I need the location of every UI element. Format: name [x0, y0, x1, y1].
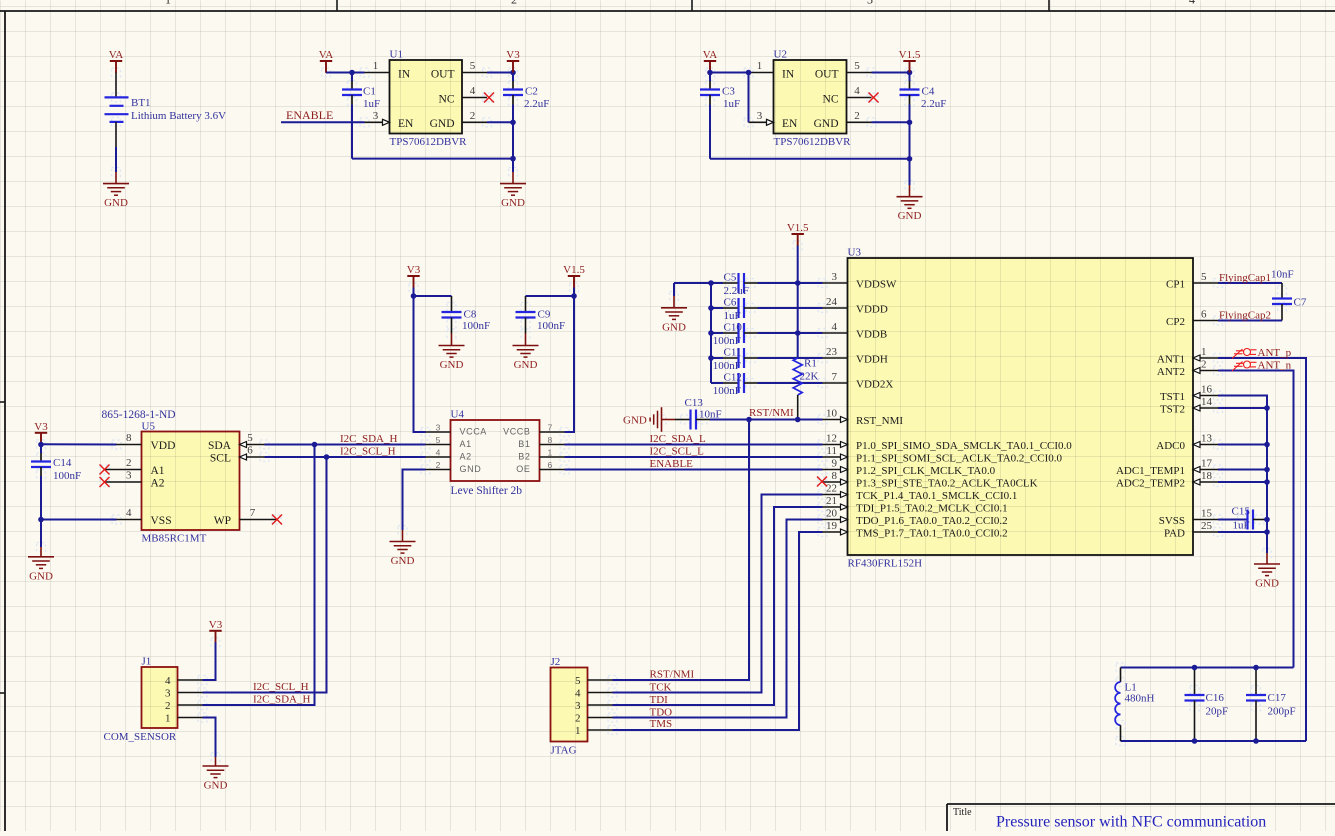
op U1 body	[390, 60, 463, 134]
svg-text:100nF: 100nF	[713, 335, 741, 347]
svg-text:EN: EN	[398, 118, 414, 130]
U3 pin 9 P1.2_SPI_CLK_MCLK_TA0.0	[823, 469, 848, 471]
svg-text:2.2uF: 2.2uF	[724, 285, 749, 297]
U3 pin 14 TST2	[1193, 407, 1218, 409]
J1 pin 2	[178, 704, 203, 706]
svg-text:GND: GND	[460, 464, 482, 474]
svg-text:20pF: 20pF	[1206, 706, 1229, 718]
svg-text:GND: GND	[204, 780, 228, 792]
no-ERC X on U5 pin 3	[100, 477, 110, 487]
ic U3 body	[848, 258, 1194, 555]
svg-text:TDI: TDI	[650, 694, 669, 706]
svg-text:U2: U2	[774, 49, 787, 61]
wire V3 to J1 pin4	[203, 642, 216, 680]
wire J1 pin1 to GND	[203, 718, 216, 758]
svg-text:I2C_SDA_H: I2C_SDA_H	[340, 433, 398, 445]
capacitor C10	[711, 332, 723, 334]
svg-text:22K: 22K	[800, 371, 819, 383]
svg-text:P1.3_SPI_STE_TA0.2_ACLK_TA0CLK: P1.3_SPI_STE_TA0.2_ACLK_TA0CLK	[856, 478, 1038, 490]
U1 pin 1	[365, 72, 390, 74]
svg-text:19: 19	[826, 520, 838, 532]
wire rail to GND (U2)	[909, 159, 911, 185]
svg-text:16: 16	[1201, 384, 1213, 396]
wire SCL vertical to J1	[203, 457, 327, 693]
svg-text:FlyingCap2: FlyingCap2	[1219, 310, 1271, 322]
wire ADC1_TEMP1 to bus	[1218, 469, 1267, 471]
U3 pin 12 P1.0_SPI_SIMO_SDA_SMCLK_TA0.1_CCI0.0	[823, 444, 848, 446]
wire bus to GND (right)	[1266, 553, 1268, 564]
svg-text:A2: A2	[151, 478, 165, 490]
wire U1 ground rail	[352, 158, 513, 160]
svg-text:OE: OE	[516, 464, 530, 474]
wire TDI from J2 to U3 pin21	[613, 507, 823, 705]
svg-text:2: 2	[1201, 359, 1207, 371]
svg-text:ADC2_TEMP2: ADC2_TEMP2	[1116, 478, 1185, 490]
svg-text:2: 2	[470, 110, 476, 122]
svg-text:2: 2	[126, 457, 132, 469]
junction C17 top	[1253, 665, 1259, 671]
junction C16 top	[1192, 665, 1198, 671]
U3 pin 17 ADC1_TEMP1	[1193, 469, 1218, 471]
junction SCL drop	[324, 454, 330, 460]
svg-text:5: 5	[247, 432, 253, 444]
wire TDO from J2 to U3 pin20	[613, 520, 823, 718]
wire ANT2 to tank	[1218, 371, 1294, 668]
wire V1.5 column (U3)	[787, 222, 809, 246]
svg-text:U5: U5	[142, 421, 156, 433]
wire gnd bus corner down	[673, 283, 675, 296]
connector J2 body	[551, 668, 588, 742]
U5 pin 3 A2	[105, 481, 142, 483]
no-ERC X on U1 pin 4	[484, 93, 494, 103]
svg-text:J2: J2	[551, 656, 561, 668]
capacitor C4	[909, 73, 911, 82]
U3 pin 8 P1.3_SPI_STE_TA0.2_ACLK_TA0CLK	[823, 481, 848, 483]
capacitor C13	[689, 410, 691, 430]
wire C13 to U3 pin10	[696, 419, 710, 421]
U1 body fill	[390, 60, 463, 134]
svg-text:TST2: TST2	[1160, 404, 1185, 416]
svg-text:TDO_P1.6_TA0.0_TA0.2_CCI0.2: TDO_P1.6_TA0.0_TA0.2_CCI0.2	[856, 515, 1008, 527]
svg-text:1uF: 1uF	[1233, 520, 1250, 532]
svg-text:B1: B1	[518, 439, 530, 449]
svg-text:MB85RC1MT: MB85RC1MT	[142, 533, 207, 545]
wire TST2 to bus	[1218, 407, 1267, 409]
capacitor C7	[1272, 297, 1292, 299]
inductor L1	[1115, 668, 1120, 742]
junction ADC0	[1264, 442, 1270, 448]
svg-text:21: 21	[826, 495, 837, 507]
wire CP1 to C7	[1218, 282, 1282, 284]
zone tick top 1-2	[336, 0, 338, 11]
svg-text:22: 22	[826, 483, 837, 495]
battery BT1	[105, 97, 129, 122]
svg-text:SVSS: SVSS	[1159, 515, 1185, 527]
wire I2C_SCL_L	[565, 456, 823, 458]
svg-text:18: 18	[1201, 470, 1213, 482]
svg-text:P1.0_SPI_SIMO_SDA_SMCLK_TA0.1_: P1.0_SPI_SIMO_SDA_SMCLK_TA0.1_CCI0.0	[856, 440, 1072, 452]
svg-text:P1.1_SPI_SOMI_SCL_ACLK_TA0.2_C: P1.1_SPI_SOMI_SCL_ACLK_TA0.2_CCI0.0	[856, 453, 1063, 465]
U1 pin 2	[462, 121, 487, 123]
capacitor C14	[40, 445, 42, 454]
svg-text:COM_SENSOR: COM_SENSOR	[104, 731, 177, 743]
svg-text:C7: C7	[1294, 297, 1307, 309]
svg-text:4: 4	[1189, 0, 1195, 7]
capacitor C8	[451, 296, 453, 312]
svg-text:5: 5	[1201, 271, 1207, 283]
sheet border top line	[0, 10, 1335, 12]
svg-text:SDA: SDA	[208, 440, 232, 452]
svg-text:C14: C14	[53, 457, 72, 469]
svg-text:3: 3	[757, 110, 763, 122]
capacitor C5	[711, 282, 723, 284]
ground sideways (C13)	[650, 407, 661, 432]
wire ENABLE (U4 OE to U3)	[565, 469, 823, 471]
ground GND (C9)	[513, 346, 539, 372]
wire V3 to U5 VDD	[41, 443, 117, 445]
svg-text:ANT_p: ANT_p	[1258, 347, 1292, 359]
U3 pin 6 CP2	[1193, 320, 1218, 322]
wire U4 GND pin	[403, 470, 426, 531]
junction U1 rail	[510, 156, 516, 162]
capacitor C2	[512, 73, 514, 82]
svg-text:VDDB: VDDB	[856, 329, 887, 341]
svg-text:PAD: PAD	[1164, 528, 1185, 540]
wire VSS row	[41, 519, 117, 521]
svg-text:C17: C17	[1268, 692, 1287, 704]
svg-text:P1.2_SPI_CLK_MCLK_TA0.0: P1.2_SPI_CLK_MCLK_TA0.0	[856, 465, 996, 477]
U4 pin 8 B1	[540, 444, 565, 446]
wire U1 pin2 to C2	[487, 121, 513, 123]
U3 pin 25 PAD	[1193, 531, 1218, 533]
U5 body fill	[142, 432, 240, 531]
svg-text:100nF: 100nF	[53, 470, 81, 482]
wire tank top rail	[1121, 667, 1294, 669]
svg-text:VDD: VDD	[151, 440, 176, 452]
wire SCL to U4 A2	[265, 456, 426, 458]
svg-text:13: 13	[1201, 433, 1213, 445]
U5 pin 2 A1	[105, 469, 142, 471]
U3 pin 13 ADC0	[1193, 444, 1218, 446]
wire U2 pin2 to C4	[872, 121, 910, 123]
svg-text:7: 7	[832, 371, 838, 383]
U4 pin 3 VCCA	[426, 431, 451, 433]
svg-text:RST_NMI: RST_NMI	[856, 415, 903, 427]
svg-text:Leve Shifter 2b: Leve Shifter 2b	[451, 485, 523, 497]
U3 pin 4 VDDB	[823, 332, 848, 334]
ground GND (J1)	[203, 766, 229, 792]
ground GND (C8)	[439, 346, 465, 372]
svg-text:100nF: 100nF	[713, 385, 741, 397]
capacitor C12	[711, 382, 723, 384]
svg-text:OUT: OUT	[815, 69, 839, 81]
J1 pin 3	[178, 692, 203, 694]
junction V1.5 C9 tap	[571, 293, 577, 299]
U1 pin 4	[462, 97, 487, 99]
diff pair mark ANT_p	[1232, 349, 1257, 359]
power port V3 (J1)	[209, 619, 223, 643]
wire tank bottom rail	[1121, 740, 1307, 742]
J1 pin 1	[178, 717, 203, 719]
svg-text:C9: C9	[538, 309, 551, 321]
U3 pin 10 RST_NMI	[823, 419, 848, 421]
svg-text:A2: A2	[460, 452, 472, 462]
junction VSS	[38, 517, 44, 523]
wire SDA vertical to J1	[203, 445, 315, 706]
power port V3 (U5)	[34, 421, 48, 445]
svg-text:100nF: 100nF	[537, 320, 565, 332]
svg-text:480nH: 480nH	[1125, 693, 1155, 705]
svg-text:BT1: BT1	[131, 97, 151, 109]
svg-text:7: 7	[250, 507, 256, 519]
svg-text:VDDD: VDDD	[856, 304, 888, 316]
wire C14 to GND	[40, 520, 42, 548]
ic U4 body	[451, 420, 540, 481]
svg-text:5: 5	[470, 60, 476, 72]
U2 pin 1	[749, 72, 774, 74]
junction V1.5 row333	[795, 330, 801, 336]
svg-text:4: 4	[832, 321, 838, 333]
junction PAD	[1264, 529, 1270, 535]
connector J1 body	[142, 667, 178, 728]
capacitor C17	[1255, 668, 1257, 696]
svg-text:TMS: TMS	[650, 718, 673, 730]
junction gnd bus row333	[708, 330, 714, 336]
svg-text:C2: C2	[525, 86, 538, 98]
capacitor C3	[709, 73, 711, 82]
wire battery to GND	[115, 122, 117, 147]
svg-text:C15: C15	[1232, 506, 1251, 518]
diff pair mark ANT_n	[1232, 361, 1257, 371]
capacitor C11	[711, 357, 723, 359]
wire VA to U2 pin1	[710, 72, 749, 74]
svg-text:U1: U1	[390, 49, 403, 61]
svg-text:1uF: 1uF	[724, 310, 741, 322]
junction ADC2	[1264, 479, 1270, 485]
ground GND (U5)	[28, 557, 54, 583]
power port V3 (U4)	[407, 264, 421, 288]
svg-text:I2C_SCL_H: I2C_SCL_H	[253, 681, 309, 693]
svg-text:C1: C1	[363, 86, 376, 98]
svg-text:GND: GND	[514, 359, 538, 371]
U1 pin names	[398, 69, 455, 131]
svg-text:IN: IN	[398, 69, 411, 81]
svg-text:2.2uF: 2.2uF	[921, 98, 946, 110]
junction EN tap (U2)	[746, 70, 752, 76]
junction U1 gnd node	[510, 120, 516, 126]
svg-text:4: 4	[575, 688, 581, 700]
J2 pin 3	[588, 704, 613, 706]
svg-text:IN: IN	[782, 69, 795, 81]
svg-text:GND: GND	[501, 197, 525, 209]
wire RST/NMI vertical from J2	[613, 420, 750, 681]
svg-text:5: 5	[436, 435, 441, 445]
junction gnd bus row283	[708, 280, 714, 286]
J2 body fill	[551, 668, 588, 742]
svg-text:NC: NC	[823, 94, 839, 106]
svg-text:100nF: 100nF	[462, 320, 490, 332]
svg-text:TPS70612DBVR: TPS70612DBVR	[390, 136, 468, 148]
svg-text:RST/NMI: RST/NMI	[650, 669, 695, 681]
U2 pin 5	[847, 72, 872, 74]
U3 pin 11 P1.1_SPI_SOMI_SCL_ACLK_TA0.2_CCI0.0	[823, 456, 848, 458]
svg-text:865-1268-1-ND: 865-1268-1-ND	[102, 409, 176, 421]
wire U2 ground rail	[710, 158, 910, 160]
svg-text:I2C_SDA_L: I2C_SDA_L	[650, 433, 707, 445]
U3 pin 21 TDI_P1.5_TA0.2_MCLK_CCI0.1	[823, 506, 848, 508]
junction U2 gnd node	[907, 120, 913, 126]
no-ERC X on U5 pin 2	[100, 465, 110, 475]
svg-text:V3: V3	[209, 619, 223, 631]
svg-text:I2C_SCL_L: I2C_SCL_L	[650, 446, 705, 458]
svg-text:3: 3	[126, 470, 132, 482]
svg-text:A1: A1	[151, 465, 165, 477]
svg-text:10nF: 10nF	[1271, 269, 1294, 281]
wire TCK from J2 to U3 pin22	[613, 495, 823, 693]
J1 pin 4	[178, 679, 203, 681]
svg-text:ADC1_TEMP1: ADC1_TEMP1	[1116, 465, 1185, 477]
U3 pin 23 VDDH	[823, 357, 848, 359]
svg-text:20: 20	[826, 508, 838, 520]
svg-text:J1: J1	[142, 656, 152, 668]
wire I2C_SDA_L	[565, 444, 823, 446]
svg-text:8: 8	[832, 470, 838, 482]
svg-text:Lithium Battery 3.6V: Lithium Battery 3.6V	[131, 110, 226, 122]
svg-text:9: 9	[832, 458, 838, 470]
junction V3 C14 tap	[38, 442, 44, 448]
resistor R1	[793, 358, 802, 395]
svg-text:C3: C3	[722, 86, 735, 98]
svg-text:C12: C12	[724, 372, 742, 384]
wire gnd to C13	[662, 419, 676, 421]
wire PAD to bus	[1218, 531, 1267, 533]
wire R1 to RST row	[797, 395, 799, 420]
junction SVSS	[1264, 517, 1270, 523]
svg-text:V3: V3	[34, 421, 48, 433]
svg-text:C11: C11	[724, 347, 742, 359]
svg-text:ANT_n: ANT_n	[1258, 360, 1292, 372]
J1 body fill	[142, 667, 178, 728]
wire ENABLE to U1 pin3	[281, 121, 365, 123]
ground GND (U1)	[500, 184, 526, 210]
wire V1.5 to C9	[526, 295, 575, 297]
svg-text:RST/NMI: RST/NMI	[749, 407, 794, 419]
U3 pin 19 TMS_P1.7_TA0.1_TA0.0_CCI0.2	[823, 531, 848, 533]
svg-text:4: 4	[854, 85, 860, 97]
U3 pin 1 ANT1	[1193, 357, 1218, 359]
junction C16 bottom	[1192, 738, 1198, 744]
svg-text:VDD2X: VDD2X	[856, 379, 893, 391]
J2 pin 2	[588, 717, 613, 719]
ic U5 body	[142, 432, 240, 531]
ic U2 body	[774, 60, 847, 134]
wire ADC0 to bus	[1218, 444, 1267, 446]
svg-text:CP2: CP2	[1166, 316, 1185, 328]
svg-text:1: 1	[1201, 346, 1207, 358]
junction V1.5 node (U2)	[907, 70, 913, 76]
wire U2 pin5 to V1.5	[872, 72, 910, 74]
svg-text:VCCA: VCCA	[460, 427, 487, 437]
U5 pin 6 SCL	[240, 456, 265, 458]
U5 pin 8 VDD	[117, 444, 142, 446]
svg-text:6: 6	[548, 460, 553, 470]
svg-text:14: 14	[1201, 396, 1213, 408]
svg-text:FlyingCap1: FlyingCap1	[1219, 272, 1271, 284]
U3 pin 22 TCK_P1.4_TA0.1_SMCLK_CCI0.1	[823, 494, 848, 496]
no-ERC X on U2 pin 4	[869, 93, 879, 103]
junction V3 node	[510, 70, 516, 76]
svg-text:3: 3	[867, 0, 873, 7]
junction C1 tap	[349, 70, 355, 76]
svg-text:TPS70612DBVR: TPS70612DBVR	[774, 136, 852, 148]
svg-text:V3: V3	[506, 49, 520, 61]
zone tick top 2-3	[691, 0, 693, 11]
svg-text:11: 11	[826, 445, 837, 457]
svg-text:2: 2	[165, 700, 171, 712]
svg-text:GND: GND	[391, 555, 415, 567]
svg-text:10: 10	[826, 408, 838, 420]
svg-text:VCCB: VCCB	[503, 427, 530, 437]
svg-text:1uF: 1uF	[363, 98, 380, 110]
U4 pin 5 A1	[426, 444, 451, 446]
wire ANT1 to tank	[1218, 358, 1306, 741]
svg-text:GND: GND	[440, 359, 464, 371]
svg-text:VDDSW: VDDSW	[856, 279, 897, 291]
svg-text:VA: VA	[109, 49, 124, 61]
power port V3 (U1)	[506, 49, 520, 73]
U1 pin 5	[462, 72, 487, 74]
U3 body fill	[848, 258, 1194, 555]
junction TST2	[1264, 405, 1270, 411]
svg-text:ENABLE: ENABLE	[286, 108, 333, 122]
svg-text:TMS_P1.7_TA0.1_TA0.0_CCI0.2: TMS_P1.7_TA0.1_TA0.0_CCI0.2	[856, 528, 1008, 540]
svg-text:1: 1	[165, 713, 171, 725]
svg-text:6: 6	[247, 445, 253, 457]
U2 pin names	[782, 69, 839, 131]
U2 pin 2	[847, 121, 872, 123]
wire TST1 to bus	[1218, 396, 1267, 554]
U5 pin 5 SDA	[240, 444, 265, 446]
svg-text:1uF: 1uF	[723, 98, 740, 110]
sheet border left line	[4, 11, 6, 831]
power port VA (U2)	[703, 49, 718, 73]
svg-text:GND: GND	[623, 415, 647, 427]
svg-text:3: 3	[373, 110, 379, 122]
svg-text:TDO: TDO	[650, 707, 673, 719]
title block frame	[947, 803, 1335, 805]
svg-text:V1.5: V1.5	[563, 264, 585, 276]
svg-text:TCK_P1.4_TA0.1_SMCLK_CCI0.1: TCK_P1.4_TA0.1_SMCLK_CCI0.1	[856, 490, 1017, 502]
U4 pin 4 A2	[426, 456, 451, 458]
no-ERC X on U3 pin 8	[817, 477, 827, 487]
svg-text:EN: EN	[782, 118, 798, 130]
wire TMS from J2 to U3 pin19	[613, 532, 823, 730]
ground GND (U2)	[897, 197, 923, 223]
svg-text:8: 8	[126, 432, 132, 444]
capacitor C1	[351, 73, 353, 82]
svg-text:4: 4	[470, 85, 476, 97]
junction gnd bus row308	[708, 305, 714, 311]
junction ADC1	[1264, 467, 1270, 473]
U2 body fill	[774, 60, 847, 134]
svg-text:ENABLE: ENABLE	[650, 458, 694, 470]
power port VA (battery)	[109, 49, 124, 73]
junction U2 rail	[907, 156, 913, 162]
svg-text:6: 6	[1201, 309, 1207, 321]
svg-text:C4: C4	[922, 86, 935, 98]
U3 pin 20 TDO_P1.6_TA0.0_TA0.2_CCI0.2	[823, 519, 848, 521]
svg-text:2: 2	[436, 460, 441, 470]
